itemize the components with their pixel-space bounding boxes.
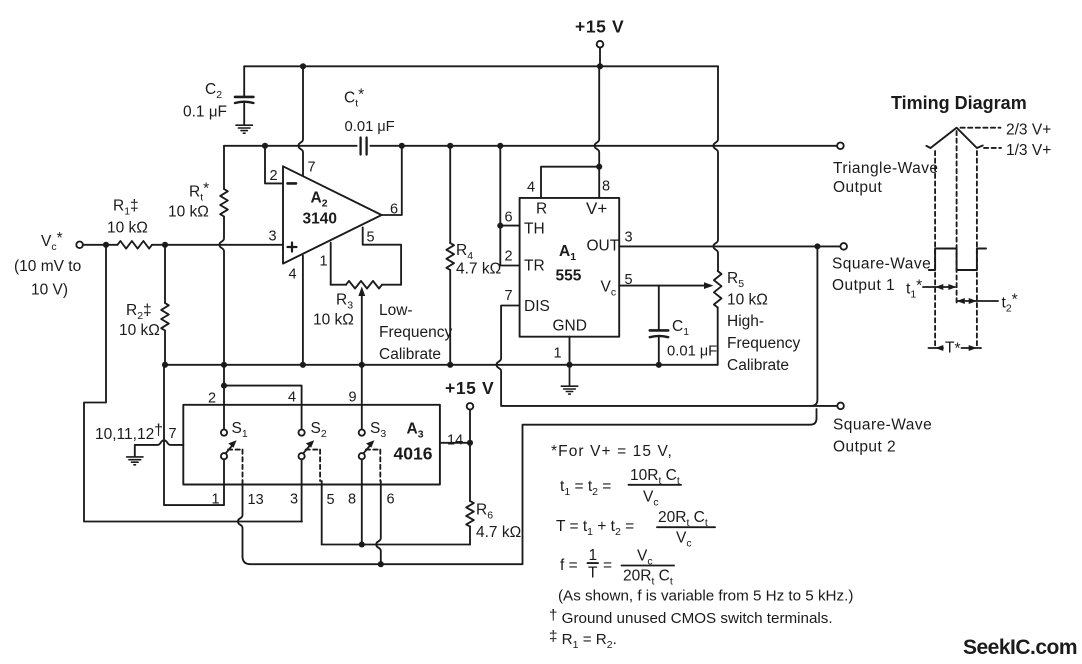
label Low-Frequency Calibrate xyxy=(379,302,452,363)
wire 4016 pin 3 (S2 bottom) xyxy=(301,459,303,521)
wire 555 pin 1 GND xyxy=(569,337,571,365)
svg-text:6: 6 xyxy=(505,210,513,226)
wire A2 pin 1 xyxy=(330,243,332,285)
power terminal +15V (top) xyxy=(575,17,624,67)
junction dot (R4 top) xyxy=(447,143,453,149)
timing dashed level 2/3 xyxy=(961,127,1001,129)
wire A2 pin 4 xyxy=(302,256,304,365)
svg-text:3: 3 xyxy=(269,229,277,245)
wire 555 pin 5 Vc to R5 wiper xyxy=(619,282,713,289)
svg-text:10 kΩ: 10 kΩ xyxy=(107,220,148,237)
svg-text:V+: V+ xyxy=(586,199,607,218)
timing t2 arrow xyxy=(957,298,998,304)
svg-text:4: 4 xyxy=(289,267,297,283)
svg-text:0.1 μF: 0.1 μF xyxy=(183,104,227,121)
wire 4016 pin 5 xyxy=(321,481,323,545)
wire 4016 pin 9 (S3 top) xyxy=(361,365,363,430)
svg-text:Calibrate: Calibrate xyxy=(379,346,441,363)
junction dot (+15V terminal / top rail) xyxy=(597,63,603,69)
resistor R4 xyxy=(446,146,501,365)
svg-text:High-: High- xyxy=(727,313,764,330)
junction dot (pin7 line / top rail) xyxy=(300,63,306,69)
svg-text:10 kΩ: 10 kΩ xyxy=(168,204,209,221)
svg-text:5: 5 xyxy=(327,492,335,508)
svg-text:(10 mV to: (10 mV to xyxy=(14,258,81,275)
wire 4016 pin 1 (S1 bottom to ground rail) xyxy=(164,365,224,505)
capacitor C2 xyxy=(183,66,253,125)
junction dot (Vc branch) xyxy=(103,242,109,248)
svg-text:7: 7 xyxy=(505,288,513,304)
wire Vc branch to 4016 pin 3 (S2) xyxy=(84,245,302,522)
svg-text:0.01 μF: 0.01 μF xyxy=(345,119,395,135)
svg-text:1: 1 xyxy=(589,547,598,564)
svg-text:10,11,12†: 10,11,12† xyxy=(95,422,163,443)
svg-text:SeekIC.com: SeekIC.com xyxy=(963,636,1077,659)
junction dot ground rail (C1 bottom) xyxy=(656,362,662,368)
input terminal Vc* xyxy=(14,230,83,299)
svg-text:8: 8 xyxy=(602,179,610,195)
junction dot ground rail (R4 bottom) xyxy=(447,362,453,368)
timing dashed level 1/3 xyxy=(984,147,1001,149)
svg-text:Output 1: Output 1 xyxy=(832,277,895,294)
wire 4016 pin 6 xyxy=(376,481,381,564)
ground (below 555) xyxy=(561,365,577,394)
wire 4016 pin 14 stub xyxy=(440,442,470,444)
svg-text:8: 8 xyxy=(348,492,356,508)
svg-text:Square-Wave: Square-Wave xyxy=(833,417,932,434)
resistor R1 xyxy=(107,198,152,249)
junction dot ground rail (R2 bottom) xyxy=(162,362,168,368)
svg-text:Frequency: Frequency xyxy=(727,335,800,352)
formula T=t1+t2 xyxy=(556,509,715,550)
formula t1=t2 xyxy=(560,467,681,509)
svg-text:2: 2 xyxy=(208,391,216,407)
svg-text:Output: Output xyxy=(833,179,882,196)
timing dashed vertical t1 xyxy=(956,131,958,305)
formula f=1/T xyxy=(560,547,674,588)
wire 555 DIS to Square-Wave Output 2 xyxy=(497,306,838,406)
svg-text:10 kΩ: 10 kΩ xyxy=(313,312,354,329)
resistor Rt* xyxy=(168,146,228,365)
timing dashed vertical t2 xyxy=(976,151,978,348)
resistor R2 xyxy=(119,245,169,365)
svg-text:TH: TH xyxy=(524,221,545,238)
svg-text:f =: f = xyxy=(560,557,578,574)
label High-Frequency Calibrate xyxy=(727,313,800,374)
svg-text:+15 V: +15 V xyxy=(445,378,494,398)
junction dot (555 pin 8 / pin 4 loop) xyxy=(596,164,602,170)
wire 555 TH/TR from Ct node xyxy=(500,146,519,266)
timing dashed vertical t0 xyxy=(934,151,936,348)
junction dot (A2 output feedback) xyxy=(399,143,405,149)
wire +15V drop to 555 pin 8 xyxy=(595,66,600,198)
wire 4016 pin 7 stub xyxy=(135,440,184,456)
svg-text:*For V+ = 15 V,: *For V+ = 15 V, xyxy=(551,443,673,460)
junction dot (TH stub) xyxy=(497,223,503,229)
wire A2 pin 5 xyxy=(363,227,401,284)
switch S3 (4016) xyxy=(359,430,381,482)
junction dot (R1/R2 node) xyxy=(162,242,168,248)
svg-text:Square-Wave: Square-Wave xyxy=(832,256,931,273)
junction dot ground rail (A2 pin4) xyxy=(300,362,306,368)
svg-text:=: = xyxy=(603,557,612,574)
svg-text:Timing Diagram: Timing Diagram xyxy=(891,93,1027,113)
wire 4016 pin 2 (S1 top) xyxy=(223,365,225,430)
capacitor Ct* xyxy=(344,87,395,155)
svg-text:4016: 4016 xyxy=(394,444,433,464)
R3 wiper arrow xyxy=(358,287,365,365)
power terminal +15V (4016 pin 14) xyxy=(445,378,494,443)
wire D (pin 13/6 loop to Output 2) xyxy=(243,409,817,564)
svg-text:R: R xyxy=(536,201,547,218)
wire A2 pin 2 stub xyxy=(265,146,283,184)
svg-text:4.7 kΩ: 4.7 kΩ xyxy=(456,261,501,278)
junction dot ground rail (555 GND) xyxy=(566,362,572,368)
junction dot (pin2/pin4 tie) xyxy=(221,383,227,389)
output terminal Square-Wave Output 2 xyxy=(833,403,932,456)
switch S2 (4016) xyxy=(299,430,321,482)
wire +15V top rail xyxy=(244,65,718,67)
junction dot (pin14 / R6 / +15V) xyxy=(467,440,473,446)
wire 4016 pin 8 (S3 bottom) xyxy=(361,459,363,544)
svg-text:7: 7 xyxy=(169,426,177,442)
junction dot ground rail (Rt bottom) xyxy=(221,362,227,368)
svg-text:4: 4 xyxy=(288,390,296,406)
svg-text:13: 13 xyxy=(248,492,264,508)
svg-text:T: T xyxy=(588,565,598,582)
svg-text:0.01 μF: 0.01 μF xyxy=(667,344,717,360)
svg-text:‡ R1 = R2.: ‡ R1 = R2. xyxy=(549,628,617,651)
svg-text:4: 4 xyxy=(527,180,535,196)
op-amp A2 3140 xyxy=(283,166,382,263)
IC U1 555 timer box xyxy=(520,198,620,337)
svg-text:Triangle-Wave: Triangle-Wave xyxy=(833,160,938,177)
resistor R6 xyxy=(466,443,521,545)
svg-text:Low-: Low- xyxy=(379,302,413,319)
wire Vc input to R1 xyxy=(83,244,118,246)
svg-text:3: 3 xyxy=(290,492,298,508)
switch S1 (4016) xyxy=(221,430,243,482)
junction dot (OUT to output-2 drop) xyxy=(814,243,820,249)
svg-text:2/3 V+: 2/3 V+ xyxy=(1006,122,1051,139)
capacitor C1 xyxy=(650,286,717,365)
svg-text:Calibrate: Calibrate xyxy=(727,357,789,374)
svg-text:9: 9 xyxy=(349,390,357,406)
junction dot (pin 8 on wire C) xyxy=(359,541,365,547)
wire Ct node (triangle-wave net) xyxy=(224,145,837,147)
svg-text:1: 1 xyxy=(554,346,562,362)
svg-text:7: 7 xyxy=(308,160,316,176)
timing T* arrow xyxy=(929,345,982,351)
svg-text:10 kΩ: 10 kΩ xyxy=(727,292,768,309)
svg-text:555: 555 xyxy=(556,268,582,285)
svg-text:10 kΩ: 10 kΩ xyxy=(119,322,160,339)
potentiometer R3 xyxy=(313,281,401,329)
junction dot (pin 6 on wire D) xyxy=(378,561,384,567)
wire ground rail xyxy=(165,364,718,366)
svg-text:14: 14 xyxy=(447,433,463,449)
wire V+ to A2 pin 7 xyxy=(298,66,303,176)
ground (below C2) xyxy=(236,125,252,133)
svg-text:Output 2: Output 2 xyxy=(833,439,896,456)
wire R1 to A2 pin 3 xyxy=(152,244,283,246)
timing triangle waveform xyxy=(926,128,982,148)
junction dot (555 TH/TR line) xyxy=(497,143,503,149)
svg-text:6: 6 xyxy=(387,492,395,508)
wire 555 pin 4 loop xyxy=(541,167,599,198)
output terminal Triangle-Wave Output xyxy=(833,143,938,197)
wire 4016 pin 13 xyxy=(238,481,243,556)
timing square waveform xyxy=(929,249,986,271)
wire C (pins 5/8 to R6) xyxy=(322,544,470,546)
svg-text:DIS: DIS xyxy=(524,298,550,315)
svg-text:1: 1 xyxy=(320,254,328,270)
svg-text:4.7 kΩ: 4.7 kΩ xyxy=(476,524,521,541)
output terminal Square-Wave Output 1 xyxy=(832,243,931,294)
junction dot ground rail (R3 wiper / 4016 pin9) xyxy=(359,362,365,368)
wire A2 pin 6 output xyxy=(382,146,402,215)
wire OUT drop to Output 2 xyxy=(811,246,817,406)
timing t1 arrow xyxy=(923,284,956,290)
IC U3 4016 CMOS switch box xyxy=(183,405,440,485)
svg-text:3: 3 xyxy=(625,230,633,246)
svg-text:TR: TR xyxy=(524,258,545,275)
ground (4016 pin 7) xyxy=(127,457,143,465)
svg-text:GND: GND xyxy=(553,318,587,335)
svg-text:10 V): 10 V) xyxy=(31,282,68,299)
svg-text:2: 2 xyxy=(505,249,513,265)
svg-text:5: 5 xyxy=(367,230,375,246)
wire pin2-pin4 tie to S2 top xyxy=(224,386,302,430)
svg-text:3140: 3140 xyxy=(303,211,337,228)
svg-text:2: 2 xyxy=(270,168,278,184)
junction dot (pin2 stub) xyxy=(262,143,268,149)
svg-text:OUT: OUT xyxy=(587,238,620,255)
wire +15V right branch to R5 xyxy=(713,66,718,271)
svg-text:† Ground unused CMOS switch te: † Ground unused CMOS switch terminals. xyxy=(549,607,833,627)
svg-text:+15 V: +15 V xyxy=(575,17,624,37)
svg-text:1/3 V+: 1/3 V+ xyxy=(1006,142,1051,159)
svg-text:T*: T* xyxy=(945,340,961,358)
svg-text:(As shown, f is variable from: (As shown, f is variable from 5 Hz to 5 … xyxy=(558,588,853,605)
svg-text:Frequency: Frequency xyxy=(379,324,452,341)
potentiometer R5 xyxy=(714,270,768,365)
wire 555 OUT xyxy=(619,245,840,247)
